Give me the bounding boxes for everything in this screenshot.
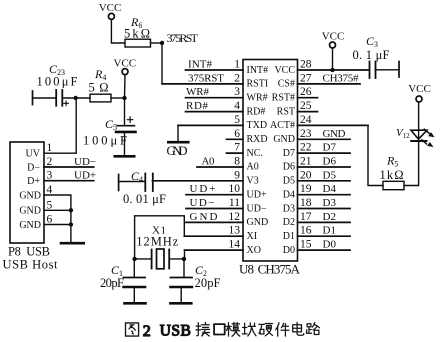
capacitor C4 left tick [118,175,120,191]
svg-text:13: 13 [229,225,241,237]
capacitor C1 wire [133,259,135,277]
wire tick to C23 [33,97,56,99]
pin 2 line 375RST [162,83,243,85]
svg-text:D1: D1 [323,225,336,237]
svg-text:ACT#: ACT# [270,120,295,131]
svg-text:RSTI: RSTI [247,79,269,90]
svg-text:15: 15 [300,239,312,251]
svg-text:GND: GND [323,128,346,140]
svg-text:7: 7 [234,142,240,154]
pin 13 line XI [184,235,243,237]
svg-text:375RST: 375RST [188,72,224,84]
pin 4 line RD# [186,111,244,113]
svg-text:USB: USB [160,323,191,340]
resistor R6 body [125,39,151,47]
pin 21 line D6 [298,166,351,168]
ground below C5 [115,155,134,158]
svg-text:CH375#: CH375# [323,72,360,84]
svg-text:20: 20 [300,169,312,181]
pin 12 line GND [186,221,243,223]
P8 pin 3 line UD+ [44,180,94,182]
svg-text:D5: D5 [323,169,337,181]
svg-text:VCC: VCC [113,58,136,70]
wire LED to VCC [418,102,420,141]
pin 9 line V3 [153,180,244,182]
svg-text:UV: UV [26,149,41,160]
wire ACT# pin24 to R5 [368,125,383,185]
svg-text:D−: D− [27,162,40,173]
svg-text:1: 1 [47,142,53,154]
svg-text:4: 4 [234,100,240,112]
capacitor C5 plates [117,125,135,127]
svg-text:9: 9 [234,169,240,181]
svg-text:UD−: UD− [247,203,267,214]
capacitor C1 plates [124,277,146,279]
wire R5 to LED branch [404,143,419,186]
svg-text:UD+: UD+ [74,170,96,182]
svg-text:INT#: INT# [188,59,213,71]
svg-text:D7: D7 [283,148,295,159]
pin 24 line ACT# [298,124,369,126]
resistor R5 body [383,181,404,189]
svg-text:UD−: UD− [190,197,215,209]
svg-text:24: 24 [300,114,312,126]
IC U8 CH375A body [243,60,298,262]
wire C5 to ground [124,133,126,155]
caption hanzi lu (circuit-2) [306,323,319,335]
wire C3 to tick [376,69,400,71]
svg-text:D1: D1 [283,231,295,242]
wire R4 to VCC node [111,97,125,99]
svg-text:V3: V3 [247,176,259,187]
ground at TXD pin5 [177,125,179,141]
pin 23 line GND [298,138,351,140]
svg-text:18: 18 [300,197,312,209]
svg-text:D5: D5 [283,176,295,187]
wire C1 to ground [133,288,135,303]
capacitor C4 plates [144,174,146,192]
svg-text:25: 25 [300,100,312,112]
svg-text:WR#: WR# [186,86,210,98]
pin 1 line INT# [186,69,244,71]
crystal X1 wiring from pin13 [135,216,185,259]
wire crystal right [169,258,184,260]
svg-text:D6: D6 [323,156,337,168]
svg-text:NC.: NC. [247,148,263,159]
svg-text:23: 23 [300,128,312,140]
svg-text:1kΩ: 1kΩ [380,168,404,182]
svg-text:USB Host: USB Host [3,258,59,272]
svg-text:P8 USB: P8 USB [8,245,50,259]
svg-text:XI: XI [247,231,258,242]
P8 pin 2 line UD- [44,166,94,168]
wire VCC to R6 [111,20,124,43]
svg-text:GND: GND [19,220,41,231]
svg-text:TXD: TXD [247,120,268,131]
svg-text:20pF: 20pF [195,276,221,290]
capacitor C2 plates [170,277,192,279]
wire node to C5 [124,98,126,125]
junction node R4/VCC/C5 [122,96,126,100]
svg-text:16: 16 [300,225,312,237]
svg-text:28: 28 [300,59,312,71]
svg-text:27: 27 [300,72,312,84]
wire tick to C4 [119,181,145,183]
svg-text:GND: GND [273,134,295,145]
svg-text:2: 2 [143,323,151,340]
svg-text:19: 19 [300,183,312,195]
svg-text:D6: D6 [283,162,295,173]
caption hanzi jian (hardware-2) [276,323,289,336]
C23 plus sign [64,101,69,106]
P8 pin 5 wire [44,209,71,211]
svg-text:XO: XO [247,245,261,256]
svg-text:6: 6 [234,128,240,140]
svg-text:UD+: UD+ [247,189,267,200]
svg-text:3: 3 [47,170,53,182]
capacitor C3 plates [369,62,371,79]
svg-text:2: 2 [234,72,240,84]
pin 5 line TXD [178,124,243,126]
caption hanzi kuai (module-2) [242,323,256,336]
pin 17 line D2 [298,221,351,223]
svg-text:RD#: RD# [186,100,209,112]
svg-text:GND: GND [19,206,41,217]
junction node pin1/C23/R4 [73,96,77,100]
svg-text:RXD: RXD [247,134,268,145]
P8 pin 6 wire [44,224,71,226]
ground below P8 [61,242,84,245]
svg-text:D7: D7 [323,142,337,154]
svg-text:5: 5 [234,114,240,126]
svg-text:26: 26 [300,86,312,98]
pin 14 line XO [185,249,244,251]
junction node 375RST [160,41,164,45]
svg-text:10: 10 [229,183,241,195]
svg-text:VCC: VCC [99,2,122,14]
pin 25 stub [298,111,318,113]
wire crystal left [135,258,151,260]
svg-text:0. 1 μF: 0. 1 μF [353,48,390,62]
svg-text:2: 2 [47,156,53,168]
power VCC above LED [416,96,422,102]
svg-text:375RST: 375RST [167,31,199,45]
crystal X1 plates [151,250,153,269]
wire R6 to node 375RST [151,42,163,44]
pin 7 stub NC [227,152,244,154]
svg-text:A0: A0 [202,156,216,168]
svg-text:D0: D0 [283,245,295,256]
caption hanzi jie (interface-1) [196,323,210,337]
svg-text:6: 6 [47,214,53,226]
svg-text:U8 CH375A: U8 CH375A [239,262,301,277]
junction pin6 [69,222,73,226]
svg-text:14: 14 [229,239,241,251]
svg-text:4: 4 [47,184,53,196]
svg-text:11: 11 [229,197,240,209]
wire node down to pin 2 [161,43,163,84]
svg-text:RD#: RD# [247,106,266,117]
junction crystal left [132,257,136,261]
svg-text:12MHz: 12MHz [136,235,178,249]
pin 20 line D5 [298,180,351,182]
junction crystal right [182,257,186,261]
svg-text:5kΩ: 5kΩ [124,27,150,41]
pin 28 line VCC [298,69,370,71]
pin 22 line D7 [298,152,351,154]
connector P8 body [10,142,44,243]
pin 26 stub [298,97,318,99]
caption hanzi tu (figure) [126,323,139,336]
svg-text:UD+: UD+ [190,183,216,195]
svg-text:A0: A0 [247,162,259,173]
svg-text:22: 22 [300,142,312,154]
power VCC mid-left [122,69,128,75]
svg-text:D0: D0 [323,239,337,251]
svg-text:D+: D+ [27,176,40,187]
svg-text:D2: D2 [283,217,295,228]
svg-text:0. 01 μF: 0. 01 μF [123,192,166,206]
pin 16 line D1 [298,235,351,237]
svg-text:21: 21 [300,156,312,168]
wire C2 to ground [180,288,182,303]
ground below C1 [125,302,146,305]
svg-text:UD−: UD− [74,156,96,168]
C5 plus sign [127,117,132,122]
caption hanzi ying (hardware-1) [259,324,273,336]
svg-text:1: 1 [234,59,240,71]
capacitor C23 plates [55,90,57,106]
svg-text:D2: D2 [323,211,336,223]
ground below C2 [170,302,191,305]
LED V12 diode [411,130,427,139]
C3 right terminal tick [398,62,400,78]
wire pin1 vertical to node [44,98,76,153]
svg-text:VCC: VCC [408,83,431,95]
svg-text:20pF: 20pF [100,276,124,290]
crystal X1 body [157,249,165,269]
pin 11 line UD- [186,208,243,210]
capacitor C2 wire [183,259,185,277]
resistor R4 body [90,94,111,102]
svg-text:VCC: VCC [274,65,295,76]
LED arrows [424,129,429,133]
power VCC top-left [108,13,114,19]
svg-text:3: 3 [234,86,240,98]
caption hanzi dian (circuit-1) [293,322,304,335]
pin 8 line A0 [197,166,243,168]
svg-text:WR#: WR# [247,93,268,104]
power VCC above pin28 [330,42,336,48]
svg-text:D3: D3 [323,197,337,209]
svg-text:17: 17 [300,211,312,223]
svg-text:RST: RST [277,106,295,117]
svg-text:12: 12 [229,211,241,223]
svg-text:5: 5 [47,199,53,211]
pin 18 line D3 [298,208,351,210]
pin 15 line D0 [298,249,351,251]
svg-text:GND: GND [19,190,41,201]
caption hanzi mo (module-1) [226,323,240,337]
svg-text:VCC: VCC [322,31,345,43]
pin 6 stub RXD [227,138,244,140]
svg-text:GND: GND [190,211,218,223]
svg-text:RST#: RST# [272,93,295,104]
svg-text:D3: D3 [283,203,295,214]
svg-text:8: 8 [234,156,240,168]
junction pin5 [69,208,73,212]
svg-text:5Ω: 5Ω [89,81,109,95]
svg-text:CS#: CS# [278,79,295,90]
svg-text:GND: GND [167,144,188,158]
svg-text:INT#: INT# [247,65,269,76]
svg-text:D4: D4 [323,183,337,195]
capacitor C23 left terminal tick [32,91,34,105]
pin 27 line CH375# [298,83,361,85]
junction pin28/VCC/C3 [330,68,334,72]
pin 3 line WR# [186,97,244,99]
svg-text:D4: D4 [283,189,295,200]
wire C23 to R4 [62,97,90,99]
pin 10 line UD+ [186,194,243,196]
svg-text:GND: GND [247,217,269,228]
svg-text:100μF: 100μF [37,75,78,89]
pin 19 line D4 [298,194,351,196]
caption hanzi kou (interface-2) [214,324,225,334]
P8 pin 4 wire [44,195,71,243]
wire pin14 down to crystal [184,250,186,259]
